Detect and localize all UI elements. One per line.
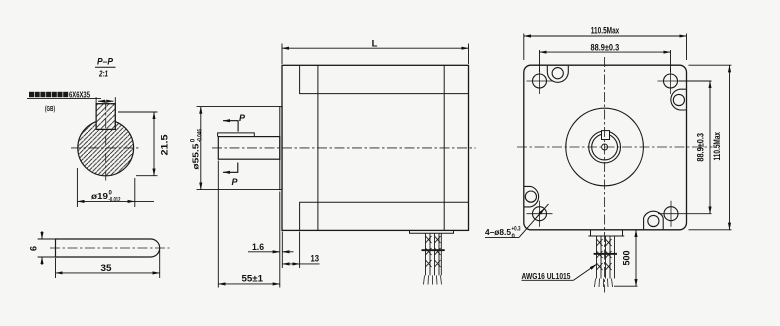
key on shaft — [218, 133, 255, 137]
key spec label (Chinese) 6X6X35 — [27, 89, 101, 113]
mounting hole bottom-right — [658, 201, 712, 227]
section cut mark P (bottom) — [223, 163, 238, 173]
svg-text:1.6: 1.6 — [252, 242, 264, 252]
mounting hole top-left — [527, 68, 553, 94]
svg-text:ø55.5: ø55.5 — [190, 143, 200, 169]
svg-text:110.5Max: 110.5Max — [712, 132, 722, 161]
key outline — [56, 239, 160, 257]
wire exit plate (side view) — [410, 230, 454, 233]
dimension L — [282, 44, 469, 65]
svg-text:21.5: 21.5 — [160, 135, 170, 156]
motor body outline — [282, 65, 469, 230]
dimension 1.6 — [248, 192, 294, 288]
shaft boss ring — [589, 131, 621, 163]
ear boss top-right — [671, 89, 686, 110]
dimension 55±1 — [218, 161, 279, 288]
svg-text:88.9±0.3: 88.9±0.3 — [591, 42, 620, 52]
frayed wire ends (front view) — [595, 279, 613, 288]
pilot boss (flange spigot) — [280, 107, 282, 190]
shaft circle ø19 — [592, 134, 618, 160]
svg-text:110.5Max: 110.5Max — [591, 26, 620, 36]
mounting hole top-right — [658, 68, 684, 94]
dimension 13 — [282, 232, 319, 269]
svg-text:4–ø8.5: 4–ø8.5 — [485, 227, 511, 237]
front end-cap line — [317, 65, 319, 230]
dimension 110.5Max (top) — [524, 34, 687, 61]
keyway width extension lines and arrows — [96, 97, 115, 104]
svg-text:P–P: P–P — [97, 57, 114, 67]
dimension ø55.5 0/-0.046 — [197, 107, 280, 190]
center mark circle — [602, 144, 608, 150]
keyway on shaft — [602, 131, 610, 140]
ear boss bottom-left — [524, 186, 538, 207]
key centerline — [50, 247, 170, 249]
top corner line — [300, 65, 469, 93]
ear boss bottom-right — [644, 211, 664, 229]
dimension 21.5 — [118, 112, 158, 176]
pilot circle ø55.5 — [566, 108, 644, 186]
shaft — [218, 137, 279, 160]
dimension 88.9±0.3 (right vertical) — [679, 81, 712, 214]
svg-text:35: 35 — [101, 263, 112, 273]
svg-text:P: P — [239, 113, 246, 123]
shaft centerline — [212, 147, 476, 149]
svg-text:L: L — [372, 39, 378, 50]
shaft section circle (hatched) — [78, 120, 134, 176]
svg-text:-0.046: -0.046 — [197, 129, 203, 143]
svg-text:6: 6 — [29, 246, 39, 251]
ear boss top-left — [547, 66, 568, 83]
rear end-cap line — [443, 65, 445, 230]
cable tie band (side view) — [422, 249, 445, 251]
mounting hole bottom-left — [527, 201, 553, 227]
leader for 4-ø8.5 — [485, 204, 549, 238]
bottom corner line — [300, 202, 469, 230]
svg-text:55±1: 55±1 — [242, 274, 264, 284]
wire bundle (side view) — [426, 233, 442, 275]
ear circle bottom-right — [648, 215, 659, 226]
dimension 110.5Max (right vertical) — [689, 65, 732, 230]
svg-text:P: P — [232, 177, 239, 187]
svg-text:ø19: ø19 — [91, 191, 108, 201]
svg-text:500: 500 — [621, 251, 631, 266]
wire exit plate (front view) — [591, 230, 623, 236]
section cut mark P (top) — [223, 121, 238, 132]
label 4-ø8.5 +0.3/0 — [485, 227, 521, 241]
svg-text:6X6X35: 6X6X35 — [69, 89, 90, 99]
svg-text:13: 13 — [311, 254, 320, 264]
wire bundle (front view) — [597, 236, 615, 279]
svg-text:-0.012: -0.012 — [109, 198, 121, 204]
ear circle bottom-left — [525, 191, 536, 202]
svg-text:AWG16 UL1015: AWG16 UL1015 — [522, 271, 571, 281]
dimension ø19 0/-0.012 — [77, 168, 154, 207]
ear circle top-right — [673, 94, 684, 105]
svg-text:88.9±0.3: 88.9±0.3 — [696, 133, 706, 162]
svg-text:(GB): (GB) — [45, 106, 55, 113]
section title P-P 2:1 — [95, 57, 116, 79]
dimension 6 — [38, 231, 57, 265]
cable tie band (front view) — [594, 253, 617, 255]
frayed wire ends (side view) — [424, 275, 442, 284]
dimension 35 — [56, 250, 160, 278]
dimension 88.9±0.3 (top) — [540, 50, 671, 72]
leader for AWG16 — [522, 264, 597, 280]
svg-text:+0.3: +0.3 — [512, 227, 521, 233]
motor face outline — [524, 65, 687, 230]
svg-text:2:1: 2:1 — [98, 69, 108, 79]
face centerlines — [517, 57, 713, 293]
section centerlines — [71, 101, 141, 183]
ear circle top-left — [552, 68, 563, 79]
key section (hatched rect) — [96, 104, 115, 130]
dimension 500 — [614, 230, 638, 286]
